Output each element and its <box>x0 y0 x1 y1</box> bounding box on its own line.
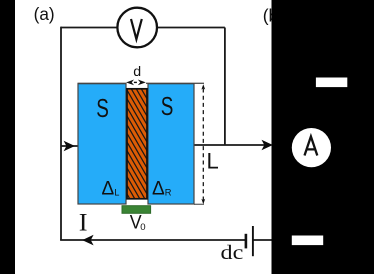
white resistor bar bottom (panel b) <box>292 236 323 246</box>
L dimension dashed line with arrows <box>202 89 204 201</box>
wire bottom right of battery <box>253 239 272 241</box>
svg-text:I: I <box>79 210 88 237</box>
ammeter A letter <box>305 137 318 156</box>
green electrode bar V0 <box>122 206 151 214</box>
wire top-right horizontal <box>158 27 225 29</box>
voltmeter V letter <box>131 19 142 39</box>
svg-text:d: d <box>133 64 141 80</box>
arrow toward ammeter (pointing right) <box>262 140 273 151</box>
gray top tick line across blocks to L dim <box>78 82 205 84</box>
svg-text:0: 0 <box>140 222 145 233</box>
right black panel (cropped panel b) <box>272 0 374 274</box>
wire stub into left block <box>61 145 79 147</box>
arrow into left block (pointing right) <box>64 141 75 152</box>
left black margin bar <box>0 0 15 274</box>
svg-text:S: S <box>96 93 109 123</box>
battery short plate <box>245 234 248 249</box>
arrow on bottom wire (current direction, pointing left) <box>82 235 93 246</box>
barrier (hatched) region <box>127 89 147 199</box>
svg-text:dc: dc <box>221 242 244 264</box>
white resistor bar top (panel b) <box>316 78 347 88</box>
wire left vertical <box>60 27 62 240</box>
wire bottom <box>60 239 245 241</box>
svg-text:(a): (a) <box>34 4 55 24</box>
gray bottom tick line to L dim <box>194 203 204 205</box>
right superconductor block S <box>148 84 194 204</box>
wire right vertical <box>224 28 226 146</box>
svg-text:L: L <box>207 149 219 174</box>
svg-text:S: S <box>161 91 174 121</box>
wire top-left horizontal <box>61 27 117 29</box>
voltmeter U-V circle <box>117 8 157 48</box>
battery long plate <box>252 226 254 256</box>
wire from right block to ammeter <box>193 144 266 146</box>
left superconductor block S <box>78 84 126 204</box>
ammeter circle A <box>292 128 331 167</box>
d dimension arrows <box>126 80 134 86</box>
